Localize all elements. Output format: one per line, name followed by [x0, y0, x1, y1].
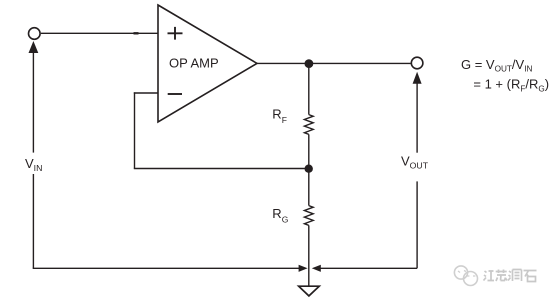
arrow up under output terminal: [413, 72, 422, 84]
ground: [299, 286, 320, 296]
output terminal circle: [411, 57, 423, 69]
wire op-amp - input to feedback corner: [134, 92, 158, 94]
node output junction: [305, 59, 314, 68]
wire right vertical lower: [416, 181, 418, 268]
wire op-amp output to output terminal: [257, 62, 411, 64]
svg-text:OP AMP: OP AMP: [169, 55, 219, 70]
wire bottom rail left: [33, 267, 300, 269]
arrow up under input terminal: [29, 41, 39, 53]
wire feedback vertical: [134, 92, 136, 168]
resistor RF: [304, 115, 313, 135]
resistor RG: [304, 206, 313, 226]
watermark text: [484, 270, 537, 282]
op-amp U1: [158, 5, 257, 122]
wire RF to feedback node: [308, 134, 310, 205]
arrow left into ground node: [312, 265, 321, 272]
watermark logo: [454, 266, 477, 286]
wire tick on + input: [134, 32, 139, 34]
wire output node down to RF: [308, 63, 310, 114]
input terminal circle: [29, 28, 41, 40]
wire input terminal to op-amp + input: [41, 32, 158, 34]
wire RG to ground: [308, 225, 310, 286]
wire left vertical upper: [32, 52, 34, 153]
wire feedback horizontal to node: [134, 168, 309, 170]
arrow right into ground node: [299, 265, 308, 272]
wire bottom rail right: [321, 267, 418, 269]
node feedback junction: [305, 165, 313, 173]
wire right vertical upper: [416, 83, 418, 153]
svg-text:= 1 + (RF/RG): = 1 + (RF/RG): [473, 76, 549, 93]
wire left vertical lower: [32, 174, 34, 268]
